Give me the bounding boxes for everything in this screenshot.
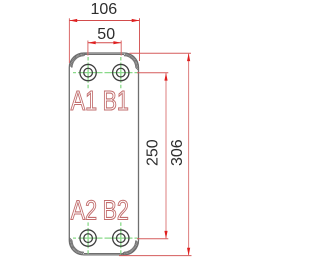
dim 250 arrow bottom	[164, 231, 167, 239]
dim 50 extension line right	[120, 41, 122, 56]
dim 250 extension line bottom	[137, 238, 168, 240]
dim 250 arrow top	[164, 73, 167, 81]
svg-text:A1: A1	[71, 85, 97, 116]
port B2	[113, 230, 129, 246]
plate inner bottom edge	[84, 253, 124, 255]
green centerline A2 vertical	[87, 222, 89, 253]
svg-text:B1: B1	[103, 85, 129, 116]
corner arc BL	[72, 240, 84, 252]
corner hatch ticks	[69, 65, 72, 68]
dim 306 arrow bottom	[187, 248, 190, 256]
svg-text:A2: A2	[71, 195, 97, 226]
plate outline	[69, 53, 138, 255]
port B1	[113, 64, 129, 80]
dim 306 line	[188, 53, 190, 255]
dim 106 line	[69, 20, 139, 22]
corner arc BR	[124, 240, 136, 252]
svg-text:106: 106	[90, 1, 117, 18]
port A2	[80, 230, 96, 246]
corner arc TR	[124, 56, 136, 68]
dim 306 arrow top	[187, 53, 190, 61]
dim 306 extension line bottom	[119, 255, 192, 257]
dim 306 extension line top	[130, 52, 192, 54]
svg-text:50: 50	[97, 26, 115, 43]
dim 106 arrow left	[69, 19, 77, 22]
dim 250 extension line top	[137, 72, 168, 74]
green centerline B1 vertical	[120, 57, 122, 88]
dim 106 extension line right	[139, 18, 141, 61]
green centerline bottom row horizontal	[73, 237, 138, 239]
green centerline B2 vertical	[120, 222, 122, 253]
dim 106 arrow right	[132, 19, 140, 22]
dim 50 extension line left	[87, 41, 89, 56]
port A1	[80, 64, 96, 80]
svg-text:B2: B2	[103, 195, 129, 226]
svg-text:250: 250	[145, 139, 162, 166]
dim 50 arrow right	[113, 41, 121, 44]
dim 106 extension line left	[68, 18, 70, 63]
dim 250 line	[165, 73, 167, 239]
dim 50 line	[88, 42, 121, 44]
corner arc TL	[72, 56, 84, 68]
green centerline top row horizontal	[73, 72, 138, 74]
green centerline A1 vertical	[87, 57, 89, 88]
plate inner top edge	[84, 53, 124, 55]
dim 50 arrow left	[88, 41, 96, 44]
svg-text:306: 306	[169, 139, 186, 166]
